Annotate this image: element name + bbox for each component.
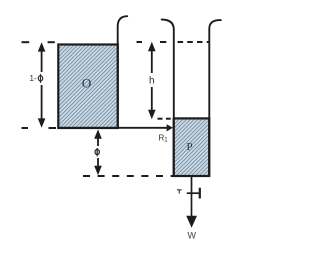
dimension arrow h (stem) [151, 48, 153, 73]
dashed line at top of P level [158, 118, 163, 120]
block P [174, 118, 210, 176]
dashed line at bottom of O (left of 1-phi arrow) [22, 127, 29, 129]
string below P with weight arrow [191, 177, 193, 219]
svg-text:h: h [149, 76, 155, 87]
vessel wall 1 (with rim hook) [118, 16, 128, 128]
arrowhead 1-phi down [38, 118, 46, 127]
vessel wall 2 (with rim hook) [162, 20, 174, 177]
dimension arrow 1-phi (stem) [41, 49, 43, 72]
dimension arrow phi (stem) [97, 136, 99, 146]
dashed line at bottom level (left of P) [83, 175, 173, 177]
tension bar T [187, 192, 200, 194]
svg-text:W: W [187, 231, 196, 241]
label phi [95, 150, 99, 155]
label T [177, 189, 182, 191]
dashed waterline left of O [22, 41, 30, 43]
R1 line (bottom of O extended to P) [58, 127, 168, 129]
dashed waterline between wall1 and wall2 [137, 41, 143, 43]
arrowhead W down [186, 216, 197, 228]
dashed waterline between wall2 and wall3 [178, 41, 209, 43]
svg-text:O: O [82, 76, 91, 91]
block O [58, 45, 118, 129]
arrowhead 1-phi up [38, 42, 46, 51]
arrowhead phi up [94, 129, 102, 138]
vessel wall 3 (with rim hook) [209, 20, 221, 176]
arrowhead R1 [167, 124, 173, 131]
arrowhead phi down [94, 166, 102, 175]
svg-text:P: P [186, 141, 192, 153]
arrowhead h up [148, 42, 156, 51]
arrowhead h down [148, 110, 156, 119]
svg-text:1-: 1- [29, 74, 36, 83]
